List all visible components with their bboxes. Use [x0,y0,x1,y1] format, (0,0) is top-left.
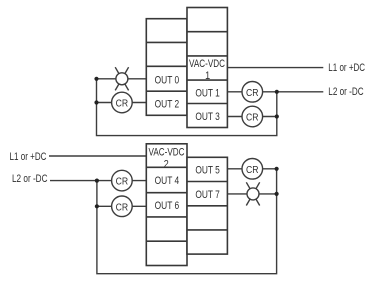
svg-text:CR: CR [246,88,259,99]
svg-text:L1 or +DC: L1 or +DC [328,62,365,74]
svg-text:CR: CR [116,177,129,188]
svg-text:OUT 5: OUT 5 [195,165,220,177]
svg-text:L2 or -DC: L2 or -DC [328,86,363,98]
svg-text:VAC-VDC: VAC-VDC [149,146,185,158]
svg-text:OUT 6: OUT 6 [155,200,180,212]
svg-text:CR: CR [246,113,259,124]
svg-text:2: 2 [164,158,169,170]
svg-text:OUT 1: OUT 1 [195,87,220,99]
svg-text:CR: CR [116,98,129,109]
svg-text:1: 1 [205,70,210,82]
svg-text:OUT 0: OUT 0 [155,75,180,87]
svg-text:OUT 3: OUT 3 [195,111,220,123]
svg-text:CR: CR [246,165,259,176]
svg-text:VAC-VDC: VAC-VDC [189,58,225,70]
svg-text:L2 or -DC: L2 or -DC [12,173,48,185]
svg-text:CR: CR [116,202,129,213]
svg-text:OUT 4: OUT 4 [155,175,180,187]
svg-text:OUT 2: OUT 2 [155,98,180,110]
svg-text:L1 or +DC: L1 or +DC [10,151,47,163]
svg-text:OUT 7: OUT 7 [195,189,220,201]
